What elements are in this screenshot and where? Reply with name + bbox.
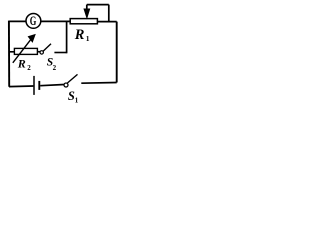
rheostat R2 (box) xyxy=(14,48,37,54)
wire galvanometer to R1 box xyxy=(41,20,70,22)
wire battery to switch S1 xyxy=(40,85,64,86)
switch S1 pivot (circle) xyxy=(64,83,68,87)
switch S1 lever xyxy=(67,74,77,83)
wire R1 box to right edge xyxy=(97,21,116,23)
resistor R1 (box) xyxy=(70,19,97,24)
svg-text:G: G xyxy=(30,14,37,28)
wire left vertical edge xyxy=(8,21,10,87)
svg-text:1: 1 xyxy=(86,34,90,43)
wire S1 to bottom-right corner xyxy=(81,82,116,85)
switch S2 pivot (circle) xyxy=(40,51,43,54)
svg-text:R: R xyxy=(74,27,85,43)
R1 slider stem xyxy=(86,5,88,11)
galvanometer G (circle) xyxy=(26,14,41,29)
R1 slider arrowhead xyxy=(84,9,89,17)
wire slider loop top xyxy=(87,4,109,6)
wire right vertical edge xyxy=(116,22,118,83)
wire slider loop right vertical xyxy=(108,5,110,22)
svg-text:2: 2 xyxy=(27,64,31,72)
wire middle vertical (branch up to top wire) xyxy=(66,21,68,53)
switch S2 lever xyxy=(43,44,51,51)
wire S2 to middle vertical xyxy=(54,52,66,54)
wire bottom-left (corner to battery) xyxy=(9,85,33,88)
R2 arrow (diagonal) xyxy=(13,39,32,63)
svg-text:R: R xyxy=(17,57,26,71)
battery long plate xyxy=(33,76,35,95)
R2 arrowhead xyxy=(28,35,35,42)
svg-text:1: 1 xyxy=(75,96,79,104)
wire top-left horizontal (corner to galvanometer) xyxy=(9,20,26,22)
wire R2 box to switch S2 xyxy=(37,51,40,53)
svg-text:2: 2 xyxy=(53,64,57,72)
wire left edge to R2 box xyxy=(9,51,14,53)
battery short plate xyxy=(38,81,40,90)
